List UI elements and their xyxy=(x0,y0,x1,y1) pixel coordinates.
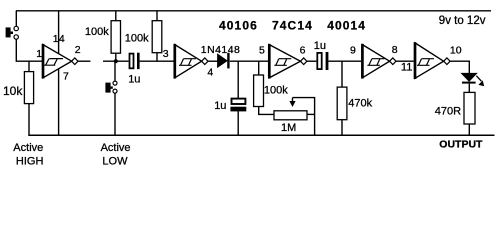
wire button S2 to ground rail xyxy=(114,93,116,135)
resistor R4 100k xyxy=(254,75,264,107)
svg-text:470R: 470R xyxy=(435,105,461,117)
inverter U1c xyxy=(269,44,307,79)
caption Active LOW xyxy=(101,142,131,168)
bottom ground rail xyxy=(28,134,494,136)
junction node B dot xyxy=(114,59,118,63)
wire capacitor C3 to U1d input xyxy=(328,60,361,62)
svg-text:10: 10 xyxy=(450,45,462,57)
push button S2 Active LOW xyxy=(105,81,117,93)
LED D2 xyxy=(462,73,485,86)
wire U1d output to U1e input xyxy=(396,60,414,62)
wire node B segment xyxy=(103,60,129,62)
resistor R6 470R xyxy=(464,92,475,124)
svg-text:100k: 100k xyxy=(125,32,149,44)
svg-text:Active: Active xyxy=(13,142,43,154)
svg-text:1N4148: 1N4148 xyxy=(201,44,240,56)
svg-text:HIGH: HIGH xyxy=(16,156,44,168)
resistor 10k xyxy=(24,72,33,104)
svg-text:100k: 100k xyxy=(85,26,109,38)
svg-text:4: 4 xyxy=(207,66,213,78)
svg-text:8: 8 xyxy=(392,44,398,56)
diode D1 1N4148 xyxy=(218,53,230,69)
wire node C to resistor R4 xyxy=(258,61,260,75)
wire U1c output to capacitor C3 xyxy=(307,60,317,62)
svg-text:4: 4 xyxy=(59,33,65,45)
svg-text:10k: 10k xyxy=(3,84,23,98)
potentiometer VR1 wiper arrow xyxy=(289,98,295,107)
capacitor C2 1u polarized xyxy=(230,99,246,112)
svg-text:7: 7 xyxy=(63,70,69,82)
inverter U1d xyxy=(362,44,396,79)
svg-text:9: 9 xyxy=(350,45,356,57)
wire node A to resistor 10k xyxy=(28,61,30,71)
caption Active HIGH xyxy=(13,142,43,168)
inverter U1e xyxy=(415,42,450,79)
wire resistor 10k to ground rail xyxy=(28,104,30,136)
pin 14 label xyxy=(53,33,65,45)
svg-text:40106: 40106 xyxy=(219,18,258,32)
svg-text:11: 11 xyxy=(401,62,412,74)
svg-text:LOW: LOW xyxy=(102,156,128,168)
wire button S1 to U1a input xyxy=(16,39,43,61)
wire resistor R3 to U1b input xyxy=(156,53,158,62)
wire capacitor C2 to ground rail xyxy=(237,111,239,135)
svg-text:40014: 40014 xyxy=(327,18,366,32)
wire U1a output stub xyxy=(78,60,90,62)
wire resistor R2 to node B xyxy=(115,53,117,61)
svg-text:100k: 100k xyxy=(264,84,288,96)
wire node C to capacitor C2 xyxy=(237,61,239,98)
svg-text:6: 6 xyxy=(300,44,306,56)
svg-text:1M: 1M xyxy=(281,122,296,134)
svg-text:2: 2 xyxy=(75,44,81,56)
resistor R2 100k xyxy=(111,21,120,54)
push button S1 Active HIGH xyxy=(6,26,19,39)
wire capacitor C1 to U1b input xyxy=(140,60,174,62)
svg-text:1u: 1u xyxy=(128,74,140,86)
inverter U1b xyxy=(175,44,208,79)
svg-text:1u: 1u xyxy=(214,100,226,112)
wire node D to resistor R5 xyxy=(341,61,343,87)
resistor R3 100k xyxy=(152,21,162,53)
wire node B to button S2 xyxy=(114,61,116,81)
svg-text:5: 5 xyxy=(259,44,265,56)
inverter U1a xyxy=(43,44,78,79)
wire resistor R4 to pot VR1 xyxy=(259,106,274,114)
svg-text:3: 3 xyxy=(163,48,169,60)
svg-text:Active: Active xyxy=(101,142,131,154)
svg-text:74C14: 74C14 xyxy=(272,18,313,32)
wire resistor R6 to ground rail xyxy=(468,124,470,135)
wire resistor R5 to ground rail xyxy=(341,120,343,136)
svg-text:1u: 1u xyxy=(314,40,326,52)
svg-text:470k: 470k xyxy=(348,98,372,110)
capacitor C1 1u polarized xyxy=(130,53,140,69)
wire resistor R3 to top rail xyxy=(156,11,158,21)
svg-text:1: 1 xyxy=(53,33,59,45)
svg-text:OUTPUT: OUTPUT xyxy=(439,138,483,150)
resistor R5 470k xyxy=(337,87,347,120)
wire pot VR1 wiper to ground rail xyxy=(293,98,315,136)
potentiometer VR1 1M body xyxy=(274,111,307,120)
wire U1b output to diode D1 xyxy=(208,60,218,62)
wire U1e output to LED xyxy=(450,61,469,73)
svg-text:9v to 12v: 9v to 12v xyxy=(439,15,486,27)
wire LED to resistor R6 xyxy=(468,84,470,93)
wire resistor R2 to top rail xyxy=(115,11,117,21)
capacitor C3 1u polarized xyxy=(317,52,328,70)
wire diode D1 to U1c input xyxy=(230,60,268,62)
top supply rail xyxy=(16,10,491,12)
wire supply pins 14-7 through U1a xyxy=(58,11,60,136)
wire pot VR1 right terminal xyxy=(307,113,315,115)
svg-text:1: 1 xyxy=(36,48,42,60)
wire button S1 to top rail xyxy=(15,11,17,26)
